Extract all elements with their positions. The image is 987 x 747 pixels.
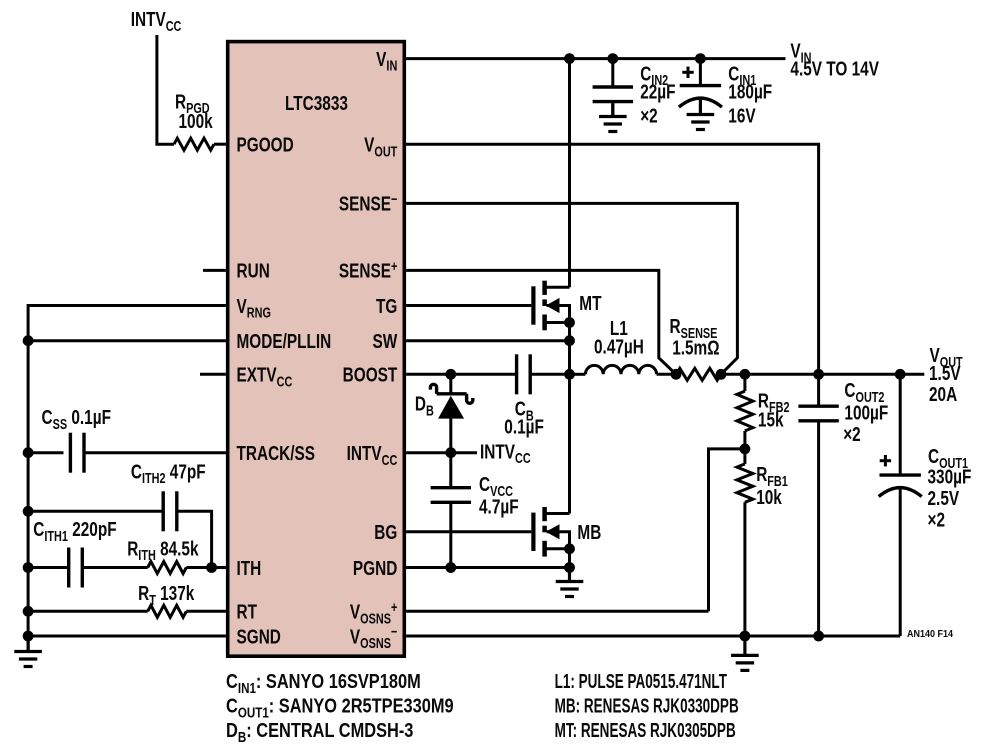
inductor L1 0.47uH [570, 365, 657, 374]
transistor MT top NMOS [533, 281, 569, 331]
capacitor CITH1 220pF [69, 548, 83, 588]
junction left rail RT [23, 606, 34, 617]
wire VRNG to left rail [28, 306, 226, 652]
wire INTVCC pin stub [406, 451, 477, 454]
svg-text:PGND: PGND [353, 557, 397, 580]
wire RPGD to PGOOD pin [214, 143, 226, 146]
resistor RSENSE 1.5mohm [676, 368, 721, 380]
svg-text:15k: 15k [758, 409, 784, 432]
svg-text:MT: MT [579, 292, 601, 315]
wire TG to MT gate [406, 304, 531, 307]
svg-text:PGOOD: PGOOD [237, 133, 294, 156]
wire CIN1 stem [699, 59, 702, 86]
wire CSS to TRACK/SS pin [84, 451, 226, 454]
wire CITH2 to ITH junction [177, 511, 212, 567]
wire VOSNS- line [406, 635, 900, 638]
svg-text:2.5V: 2.5V [928, 487, 960, 510]
capacitor COUT1 330uF [879, 475, 922, 497]
ground MB source [556, 568, 584, 597]
wire VOSNS+ pin [406, 610, 708, 613]
wire BG to MB gate [406, 530, 531, 533]
wire SENSE+ to RSENSE [406, 270, 676, 374]
svg-text:CITH1 220pF: CITH1 220pF [33, 518, 116, 544]
svg-text:COUT1: SANYO 2R5TPE330M9: COUT1: SANYO 2R5TPE330M9 [226, 694, 454, 721]
wire INTVCC to RPGD [157, 35, 174, 144]
svg-text:SENSE+: SENSE+ [339, 257, 397, 282]
capacitor COUT2 100uF [798, 406, 838, 421]
svg-text:BG: BG [374, 521, 397, 544]
wire RUN stub [203, 269, 226, 272]
wire COUT2 top stem [817, 374, 820, 406]
junction MB source [564, 543, 575, 554]
junction RSENSE left [671, 369, 682, 380]
svg-text:BOOST: BOOST [343, 363, 398, 386]
junction CVCC PGND [445, 562, 456, 573]
wire VIN pin to input [406, 57, 785, 60]
diode DB schottky [430, 384, 472, 452]
wire VOUT pin to output rail [406, 144, 818, 374]
svg-text:330µF: 330µF [928, 465, 972, 488]
svg-text:TG: TG [376, 295, 397, 318]
wire EXTVCC stub [200, 373, 226, 376]
wire RFB1 bottom stem [743, 502, 746, 636]
ground RFB1 [731, 636, 759, 670]
wire RFB2 top stem [743, 374, 746, 391]
junction left rail TRACK/SS [23, 447, 34, 458]
svg-text:MB: RENESAS RJK0330DPB: MB: RENESAS RJK0330DPB [555, 694, 739, 718]
junction SW [564, 335, 575, 346]
wire rail to CITH1 [28, 566, 69, 569]
ground CIN1 [687, 98, 715, 130]
svg-text:RT 137k: RT 137k [138, 582, 195, 608]
capacitor CSS 0.1uF [70, 433, 84, 473]
svg-text:20A: 20A [929, 383, 957, 406]
junction FB node [740, 444, 751, 455]
op-amp U1 LTC3833 controller body [228, 42, 405, 657]
wire MT source to SW node [568, 323, 571, 375]
svg-text:0.47µH: 0.47µH [594, 335, 644, 358]
svg-text:AN140 F14: AN140 F14 [907, 629, 954, 641]
junction CIN2 [607, 53, 618, 64]
svg-text:×2: ×2 [640, 104, 658, 127]
junction VIN rail [564, 53, 575, 64]
ground left rail [14, 636, 42, 667]
capacitor CIN1 180uF [679, 86, 722, 108]
junction PGND MB [564, 562, 575, 573]
svg-text:100k: 100k [179, 110, 214, 133]
wire VIN rail down to MT drain [568, 59, 571, 288]
wire CITH1 to RITH [82, 566, 147, 569]
svg-text:RITH 84.5k: RITH 84.5k [127, 537, 199, 563]
wire rail to CITH2 [28, 510, 163, 513]
wire PGND pin to MB [406, 566, 569, 569]
wire COUT1 top stem [899, 374, 902, 475]
wire rail to CSS [28, 451, 63, 454]
wire SW pin [406, 339, 569, 342]
wire COUT1 bottom stem [899, 487, 902, 636]
svg-text:SENSE−: SENSE− [339, 190, 397, 215]
wire CVCC top stem [449, 453, 452, 488]
svg-text:1.5mΩ: 1.5mΩ [672, 336, 719, 359]
resistor RITH 84.5k [148, 562, 187, 574]
svg-text:180µF: 180µF [728, 80, 772, 103]
wire FB node to VOSNS+ [709, 449, 745, 611]
wire MB source to PGND [568, 549, 571, 568]
junction left rail CITH2 [23, 506, 34, 517]
wire output line [721, 373, 924, 376]
wire RT resistor to RT pin [186, 610, 226, 613]
junction COUT2 bottom [813, 631, 824, 642]
junction SW main node [564, 369, 575, 380]
svg-text:100µF: 100µF [844, 401, 888, 424]
junction left rail SGND [23, 631, 34, 642]
svg-text:CSS 0.1µF: CSS 0.1µF [42, 406, 111, 432]
wire CIN2 to ground [611, 102, 614, 117]
plus sign COUT1 [880, 455, 891, 466]
svg-text:DB: DB [415, 392, 434, 418]
junction BOOST DB [445, 369, 456, 380]
svg-text:MT: RENESAS RJK0305DPB: MT: RENESAS RJK0305DPB [555, 718, 736, 742]
svg-text:INTVCC: INTVCC [480, 440, 531, 466]
wire CIN2 stem [611, 59, 614, 87]
svg-text:16V: 16V [728, 104, 755, 127]
capacitor CITH2 47pF [163, 491, 177, 531]
wire RITH to ITH pin [186, 566, 226, 569]
svg-text:1.5V: 1.5V [929, 362, 961, 385]
svg-text:ITH: ITH [237, 557, 262, 580]
junction RFB1 ground [740, 631, 751, 642]
svg-text:22µF: 22µF [640, 80, 675, 103]
junction RSENSE right [716, 369, 727, 380]
junction left rail ITH [23, 562, 34, 573]
junction COUT1 top [895, 369, 906, 380]
svg-text:SGND: SGND [237, 625, 281, 648]
wire CVCC bottom stem [449, 502, 452, 567]
resistor RT 137k [148, 605, 187, 617]
svg-text:MODE/PLLIN: MODE/PLLIN [237, 330, 332, 353]
svg-text:RT: RT [237, 600, 257, 623]
wire COUT2 bottom stem [817, 421, 820, 636]
junction CIN1 [695, 53, 706, 64]
svg-text:4.7µF: 4.7µF [479, 495, 519, 518]
junction COUT2 top [813, 369, 824, 380]
junction INTVCC node [445, 447, 456, 458]
wire SENSE- to RSENSE [406, 203, 737, 374]
junction ITH node CITH2 [206, 562, 217, 573]
junction MT source [564, 317, 575, 328]
svg-text:INTVCC: INTVCC [131, 8, 182, 34]
svg-text:TRACK/SS: TRACK/SS [237, 442, 316, 465]
transistor MB bottom NMOS [533, 507, 569, 557]
plus sign CIN1 [682, 67, 693, 78]
resistor RFB2 15k [737, 391, 753, 431]
svg-text:MB: MB [577, 521, 601, 544]
junction RFB2 top [740, 369, 751, 380]
svg-text:CITH2 47pF: CITH2 47pF [131, 460, 206, 486]
wire BOOST pin to CB [406, 373, 516, 376]
svg-text:4.5V TO 14V: 4.5V TO 14V [790, 57, 879, 80]
resistor RFB1 10k [737, 464, 753, 502]
wire RFB1 top stem [743, 449, 746, 464]
svg-text:LTC3833: LTC3833 [285, 92, 348, 115]
resistor RPGD 100k [174, 138, 214, 150]
svg-text:L1: PULSE PA0515.471NLT: L1: PULSE PA0515.471NLT [555, 669, 728, 693]
capacitor CB 0.1uF [517, 354, 531, 394]
svg-text:×2: ×2 [843, 423, 861, 446]
capacitor CIN2 22uF [593, 87, 633, 102]
svg-text:10k: 10k [756, 486, 782, 509]
wire SGND to rail [28, 635, 226, 638]
capacitor CVCC 4.7uF [431, 488, 471, 503]
svg-text:×2: ×2 [928, 508, 946, 531]
wire CB to SW node [530, 373, 569, 376]
wire DB top stem [449, 374, 452, 394]
wire RFB2 bottom stem [743, 431, 746, 449]
wire MB drain to SW node [568, 374, 571, 513]
svg-text:SW: SW [373, 330, 399, 353]
wire MODE/PLLIN [28, 339, 226, 342]
svg-text:DB: CENTRAL CMDSH-3: DB: CENTRAL CMDSH-3 [226, 718, 413, 745]
svg-text:CIN1: SANYO 16SVP180M: CIN1: SANYO 16SVP180M [226, 669, 421, 696]
svg-text:0.1µF: 0.1µF [504, 415, 544, 438]
wire L1 to RSENSE [657, 373, 676, 376]
junction left rail MODE/PLLIN [23, 335, 34, 346]
wire rail to RT resistor [28, 610, 148, 613]
svg-text:RUN: RUN [237, 260, 270, 283]
ground CIN2 [599, 102, 627, 132]
